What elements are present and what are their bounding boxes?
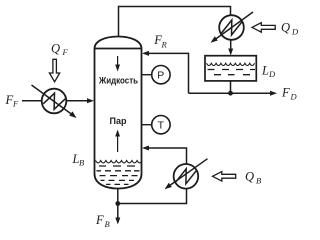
svg-text:F: F bbox=[95, 213, 104, 227]
sensor P bbox=[142, 66, 171, 84]
svg-text:F: F bbox=[12, 99, 19, 109]
label Q_B bbox=[245, 170, 261, 186]
svg-text:Жидкость: Жидкость bbox=[98, 76, 138, 86]
label F_B bbox=[95, 213, 110, 229]
svg-text:B: B bbox=[105, 219, 110, 229]
wire: distillate line F_D (arrow right) bbox=[189, 91, 278, 96]
column bottom liquid dashes bbox=[97, 166, 140, 184]
reflux drum (tank) bbox=[205, 56, 256, 81]
wire: reboiler vapor return into column (arrow) bbox=[142, 146, 187, 165]
label F_D bbox=[281, 86, 298, 102]
wire: tank outlet to junction bbox=[230, 81, 232, 93]
label L_D bbox=[261, 64, 276, 80]
svg-text:T: T bbox=[158, 120, 165, 132]
wire: reboiler circulation line bbox=[118, 189, 187, 204]
wire: feed line into heater bbox=[22, 100, 42, 102]
svg-text:D: D bbox=[268, 69, 276, 79]
label F_R bbox=[153, 33, 167, 50]
svg-text:D: D bbox=[291, 27, 299, 37]
svg-text:Q: Q bbox=[281, 21, 290, 35]
sensor T bbox=[142, 116, 171, 134]
wire: feed line heater to column bbox=[66, 98, 94, 103]
svg-text:Пар: Пар bbox=[110, 116, 127, 126]
wire: overhead vapor line from column top to condenser bbox=[119, 7, 231, 38]
wire: bottoms product F_B (arrow down) bbox=[115, 204, 120, 225]
label L_B bbox=[72, 152, 85, 168]
wire: column bottoms to junction bbox=[117, 189, 119, 204]
svg-text:F: F bbox=[62, 47, 69, 57]
internal up arrow (vapor flow) bbox=[115, 130, 120, 153]
heat exchanger (reboiler) bbox=[174, 164, 199, 189]
svg-text:R: R bbox=[161, 40, 168, 50]
svg-text:Q: Q bbox=[245, 170, 254, 184]
svg-text:P: P bbox=[157, 70, 164, 82]
label Q_D bbox=[281, 21, 299, 37]
tank liquid dashes bbox=[208, 70, 256, 75]
svg-text:B: B bbox=[79, 158, 84, 168]
column vessel C1 bbox=[95, 37, 142, 189]
diagonal arrow through reboiler bbox=[165, 159, 208, 190]
svg-text:F: F bbox=[281, 86, 290, 100]
heat exchanger (feed preheater) bbox=[42, 89, 67, 114]
internal down arrow (liquid flow) bbox=[115, 56, 120, 72]
svg-text:Q: Q bbox=[51, 42, 60, 56]
heat exchanger (condenser) bbox=[219, 15, 244, 40]
label F_F bbox=[5, 93, 20, 109]
node: distillate junction bbox=[228, 91, 233, 96]
block arrow Q_F (hollow, down) bbox=[49, 59, 59, 82]
node: bottoms junction bbox=[115, 201, 120, 206]
svg-text:L: L bbox=[261, 64, 269, 78]
column bottom liquid surface (scalloped) bbox=[96, 161, 142, 163]
svg-text:D: D bbox=[290, 92, 298, 102]
label Q_F bbox=[51, 42, 69, 58]
tank liquid surface (scalloped) bbox=[207, 63, 255, 65]
diagonal arrow through feed preheater bbox=[32, 85, 77, 118]
wire: reflux line into column (arrow) bbox=[142, 51, 189, 93]
block arrow Q_D (hollow, left) bbox=[252, 23, 275, 33]
block arrow Q_B (hollow, left) bbox=[213, 172, 236, 182]
svg-text:B: B bbox=[256, 176, 261, 186]
diagonal arrow through condenser bbox=[211, 12, 254, 43]
wire: condenser to reflux drum (arrow) bbox=[228, 40, 233, 56]
